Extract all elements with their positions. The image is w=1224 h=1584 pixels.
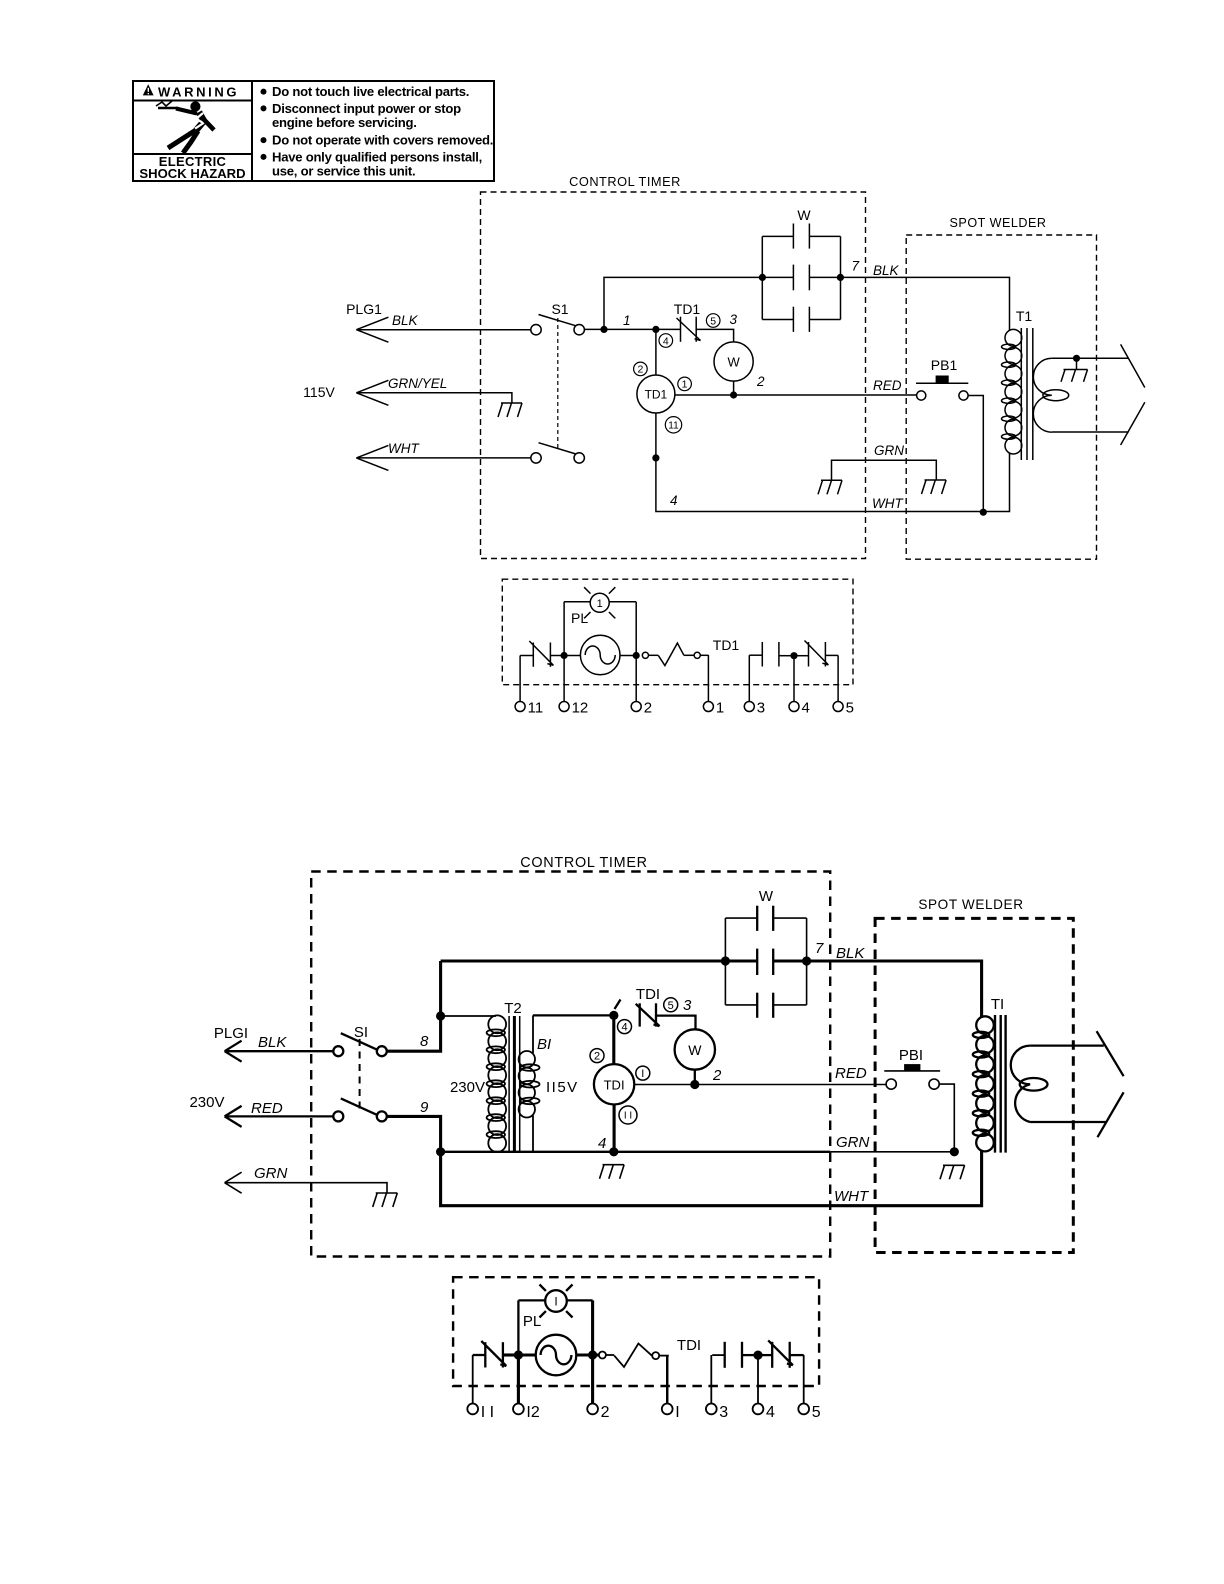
weld contactor W contacts (230V) — [756, 906, 758, 931]
contact NC 4-5 (230V) — [771, 1342, 773, 1368]
terminal stems — [519, 656, 521, 702]
ground (T1 secondary) — [1064, 369, 1088, 371]
electrode bottom — [1121, 402, 1145, 445]
svg-text:5: 5 — [812, 1404, 821, 1421]
junction (riser/S1 wire) — [600, 326, 607, 333]
switch S1 pole B — [531, 453, 541, 463]
svg-text:2: 2 — [637, 364, 643, 376]
pilot light loop — [564, 601, 590, 603]
svg-text:BI: BI — [537, 1036, 551, 1053]
svg-text:4: 4 — [802, 700, 810, 717]
svg-text:I I: I I — [481, 1404, 494, 1421]
transformer T1 secondary (230V) — [1011, 1046, 1030, 1122]
pin 4 bubble — [659, 334, 673, 348]
svg-text:SPOT WELDER: SPOT WELDER — [950, 216, 1047, 230]
wire GRN bus (230V) — [441, 1151, 831, 1153]
svg-text:11: 11 — [528, 700, 544, 717]
wire GRN bond — [832, 460, 937, 480]
svg-text:BLK: BLK — [873, 263, 900, 278]
wire node 4 vertical — [656, 453, 1010, 512]
pilot light PL — [590, 593, 609, 612]
terminal stems (230V) — [472, 1355, 474, 1403]
svg-text:PLGI: PLGI — [214, 1025, 248, 1042]
wire secondary top (230V) — [1030, 1044, 1104, 1046]
timer motor W (230V) — [675, 1029, 715, 1069]
svg-text:5: 5 — [846, 700, 854, 717]
svg-text:engine before servicing.: engine before servicing. — [272, 115, 417, 130]
svg-text:S1: S1 — [551, 301, 568, 317]
svg-text:2: 2 — [756, 374, 765, 389]
transformer T2 primary lead top — [441, 1015, 496, 1017]
wire TD1 branch bottom (230V) — [613, 1105, 616, 1152]
contact NO 3-4 (230V) — [724, 1342, 726, 1368]
svg-text:use, or service this unit.: use, or service this unit. — [272, 163, 415, 178]
junction TD1 node 4 top — [609, 1011, 618, 1020]
ground (230V input) — [376, 1192, 398, 1194]
svg-text:CONTROL TIMER: CONTROL TIMER — [520, 855, 647, 871]
svg-text:4: 4 — [598, 1135, 606, 1152]
svg-text:5: 5 — [710, 315, 716, 327]
svg-text:W: W — [797, 207, 811, 223]
svg-text:PBI: PBI — [899, 1047, 923, 1064]
pin 11 bubble — [665, 417, 681, 433]
contact NC 11-12 (230V) — [484, 1342, 486, 1367]
svg-text:I: I — [554, 1294, 557, 1308]
switch S1 pole B (230V) — [333, 1111, 343, 1121]
svg-text:Do not operate with covers rem: Do not operate with covers removed. — [272, 133, 493, 148]
svg-text:2: 2 — [594, 1051, 600, 1063]
wire secondary bottom — [1052, 431, 1129, 433]
electric shock hazard pictogram — [158, 107, 178, 110]
timed contact zigzag (230V) — [614, 1344, 652, 1368]
svg-text:TD1: TD1 — [713, 637, 740, 653]
svg-text:W: W — [759, 888, 774, 905]
wire T2 secondary top — [533, 1014, 614, 1016]
ground (TD1 node 4) — [603, 1164, 625, 1166]
wire motor to 12 — [564, 655, 580, 657]
junction 12 (230V) — [514, 1350, 523, 1359]
wire GRN to ground (230V) — [225, 1183, 387, 1193]
timer motor sync (230V) — [536, 1335, 577, 1376]
junction W left (230V) — [721, 956, 730, 965]
ground (GRN/YEL) — [501, 402, 522, 404]
svg-text:Have only qualified persons in: Have only qualified persons install, — [272, 149, 482, 164]
ground (spot welder) — [925, 479, 947, 481]
pin 11 bubble (230V) — [619, 1106, 637, 1124]
svg-text:I: I — [641, 1068, 644, 1080]
svg-text:WHT: WHT — [388, 441, 420, 456]
wire motor to 2 — [620, 655, 636, 657]
wire WHT bus (230V) — [441, 1150, 982, 1206]
ground (PB1 230V) — [943, 1164, 965, 1166]
svg-text:12: 12 — [572, 700, 589, 717]
svg-text:Disconnect input power or stop: Disconnect input power or stop — [272, 101, 461, 116]
contact bubble left — [642, 652, 648, 658]
pin 1 bubble — [678, 377, 692, 391]
wire TD1 coil branch top — [655, 329, 657, 375]
wire RED to PLG1 (230V) — [225, 1115, 334, 1117]
wire node 3 — [696, 329, 733, 342]
svg-text:SI: SI — [354, 1024, 368, 1041]
junction 2 — [633, 652, 640, 659]
contact bubble right — [694, 652, 700, 658]
junction WHT/S1 — [652, 454, 659, 461]
junction node 2 (230V) — [690, 1080, 699, 1089]
svg-text:4: 4 — [766, 1404, 775, 1421]
pin 5 bubble — [706, 314, 720, 328]
svg-text:230V: 230V — [450, 1079, 485, 1096]
svg-text:RED: RED — [251, 1100, 283, 1117]
svg-text:4: 4 — [621, 1022, 627, 1034]
wire GRN/YEL to PLG1 — [356, 393, 512, 403]
weld contactor W contact mid — [792, 265, 794, 291]
transformer T1 core — [1020, 328, 1022, 460]
pilot light PL (230V) — [545, 1290, 567, 1312]
svg-text:PL: PL — [523, 1313, 541, 1330]
svg-text:7: 7 — [815, 940, 824, 957]
svg-text:I2: I2 — [526, 1404, 539, 1421]
svg-text:I: I — [675, 1404, 679, 1421]
junction T2 bottom — [436, 1147, 445, 1156]
svg-text:GRN: GRN — [254, 1165, 288, 1182]
wire secondary bottom (230V) — [1030, 1121, 1106, 1123]
warning title — [143, 84, 154, 95]
wire BLK bus — [840, 277, 1009, 331]
svg-text:GRN: GRN — [874, 443, 904, 458]
wire node 8 — [387, 1016, 441, 1051]
junction 2 (230V) — [588, 1350, 597, 1359]
wire BLK to PLG1 (230V) — [225, 1050, 334, 1052]
wire to secondary ground — [1076, 358, 1078, 369]
wire TD1 branch top (230V) — [612, 1015, 615, 1064]
svg-text:RED: RED — [835, 1065, 867, 1082]
timer internal enclosure (230V) — [453, 1277, 819, 1386]
svg-text:WHT: WHT — [834, 1188, 870, 1205]
wire W motor to node 2 (230V) — [694, 1070, 696, 1085]
svg-text:TD1: TD1 — [645, 388, 668, 402]
svg-text:8: 8 — [420, 1033, 429, 1050]
svg-text:TD1: TD1 — [674, 301, 701, 317]
spot welder enclosure (230V) — [875, 918, 1073, 1252]
svg-text:WARNING: WARNING — [158, 84, 239, 99]
svg-text:2: 2 — [644, 700, 652, 717]
wire W motor to node 2 — [733, 381, 735, 395]
junction PB1/WHT — [980, 509, 987, 516]
pin 2 bubble (230V) — [590, 1049, 604, 1063]
terminals 11 12 2 1 3 4 5 (230V) — [467, 1404, 478, 1415]
spot welder enclosure (115V) — [906, 235, 1096, 559]
svg-text:CONTROL TIMER: CONTROL TIMER — [569, 174, 681, 189]
svg-text:4: 4 — [670, 493, 678, 508]
svg-text:1: 1 — [682, 379, 688, 391]
timed contact zigzag — [658, 643, 684, 665]
svg-text:SPOT WELDER: SPOT WELDER — [918, 897, 1023, 912]
svg-text:11: 11 — [668, 420, 679, 431]
electrode top — [1121, 344, 1145, 387]
relay coil TD1 — [637, 375, 675, 413]
weld contactor W frame (230V) — [725, 917, 757, 919]
switch S1 linkage — [557, 318, 559, 450]
svg-text:BLK: BLK — [836, 945, 865, 962]
svg-text:3: 3 — [719, 1404, 728, 1421]
svg-text:5: 5 — [668, 1000, 674, 1012]
junction 12 — [561, 652, 568, 659]
warning bullet text — [261, 89, 267, 95]
electrode top (230V) — [1097, 1031, 1124, 1076]
contact bubble left (230V) — [599, 1352, 606, 1359]
contact TD1 NC (230V) — [639, 1003, 641, 1026]
wire PB1 to GRN (230V) — [939, 1084, 954, 1152]
wire node 1 — [584, 328, 680, 330]
pilot light loop (230V) — [518, 1299, 545, 1301]
svg-text:GRN: GRN — [836, 1134, 870, 1151]
switch S1 pole A — [531, 325, 541, 335]
transformer T1 primary (230V) — [976, 1016, 994, 1034]
pin 2 bubble — [634, 362, 648, 376]
warning label frame — [133, 81, 494, 181]
svg-text:I I: I I — [624, 1111, 632, 1122]
junction node 2 — [730, 391, 737, 398]
svg-text:T2: T2 — [504, 1000, 522, 1017]
junction W right — [837, 274, 844, 281]
junction node 1 / TD1 branch — [652, 326, 659, 333]
wire RED node 2 — [675, 394, 917, 396]
electrode bottom (230V) — [1098, 1092, 1124, 1137]
wire RED node 2 (230V) — [634, 1084, 886, 1086]
contact bubble right (230V) — [652, 1352, 659, 1359]
svg-text:4: 4 — [663, 335, 669, 347]
switch S1 linkage (230V) — [359, 1039, 361, 1112]
wire WHT to PLG1 — [356, 457, 530, 459]
svg-text:RED: RED — [873, 378, 902, 393]
junction secondary ground — [1073, 355, 1080, 362]
svg-text:BLK: BLK — [392, 313, 419, 328]
wire GRN spot welder (230V) — [830, 1151, 954, 1153]
svg-text:GRN/YEL: GRN/YEL — [388, 376, 447, 391]
wire BLK to PLG1 — [356, 329, 530, 331]
timer motor W — [714, 342, 753, 381]
wire secondary top — [1052, 357, 1129, 359]
junction 4 (230V) — [753, 1351, 762, 1360]
pushbutton PB1 — [916, 382, 968, 384]
control timer enclosure (115V) — [481, 192, 866, 559]
svg-text:3: 3 — [683, 997, 692, 1014]
transformer T2 core — [508, 1016, 510, 1153]
svg-text:3: 3 — [757, 700, 765, 717]
svg-text:W: W — [688, 1042, 702, 1058]
ground (control timer) — [821, 479, 842, 481]
transformer T1 core (230V) — [994, 1015, 996, 1153]
pin 1 bubble (230V) — [636, 1066, 650, 1080]
svg-text:1: 1 — [597, 598, 603, 610]
timer motor (sync) — [580, 635, 620, 675]
wire BLK bus (230V) — [441, 959, 758, 962]
timer internal enclosure (115V) — [502, 579, 853, 685]
svg-text:2: 2 — [712, 1067, 722, 1084]
svg-text:PLG1: PLG1 — [346, 301, 382, 317]
contact NO 3-4 — [761, 642, 763, 667]
junction W right (230V) — [802, 956, 811, 965]
junction 4 — [790, 652, 797, 659]
svg-text:230V: 230V — [189, 1094, 224, 1111]
svg-text:TDI: TDI — [604, 1077, 625, 1092]
contact NC 4-5 — [808, 642, 810, 667]
svg-text:Do not touch live electrical p: Do not touch live electrical parts. — [272, 84, 469, 99]
pushbutton PB1 (230V) — [884, 1070, 940, 1072]
svg-text:7: 7 — [852, 259, 860, 274]
junction PB1/GRN — [950, 1147, 959, 1156]
svg-text:TI: TI — [991, 996, 1004, 1013]
wire PB1 to WHT — [968, 396, 983, 513]
weld contactor W contact top — [792, 224, 794, 249]
wire riser to W line — [604, 277, 762, 329]
switch S1 pole A (230V) — [333, 1046, 343, 1056]
svg-text:TDI: TDI — [677, 1337, 701, 1354]
transformer T2 primary — [488, 1015, 506, 1033]
junction TD1 ground — [609, 1147, 618, 1156]
contact TD1 (NC) — [680, 317, 682, 342]
wire node 3 (230V) — [656, 1016, 696, 1030]
svg-text:2: 2 — [601, 1404, 610, 1421]
svg-text:II5V: II5V — [546, 1079, 579, 1096]
weld contactor W frame — [762, 235, 793, 237]
svg-text:BLK: BLK — [258, 1034, 287, 1051]
pin 5 bubble (230V) — [664, 998, 678, 1012]
wire node 9 — [387, 1116, 441, 1151]
svg-text:PL: PL — [571, 610, 588, 626]
svg-text:SHOCK HAZARD: SHOCK HAZARD — [139, 166, 245, 181]
svg-text:PB1: PB1 — [931, 357, 958, 373]
weld contactor W contact bottom — [792, 307, 794, 332]
junction W left — [759, 274, 766, 281]
svg-text:1: 1 — [716, 700, 724, 717]
transformer T1 primary — [1005, 329, 1022, 346]
wire motor leads (230V) — [518, 1353, 535, 1356]
transformer T1 secondary — [1033, 358, 1052, 432]
blade tick — [615, 1000, 621, 1010]
svg-text:9: 9 — [420, 1099, 429, 1116]
control timer enclosure (230V) — [311, 872, 830, 1257]
wire TD1 coil branch bottom — [655, 413, 657, 458]
svg-text:115V: 115V — [303, 384, 335, 400]
svg-text:T1: T1 — [1016, 308, 1033, 324]
svg-text:WHT: WHT — [872, 496, 904, 511]
svg-text:1: 1 — [623, 313, 631, 328]
svg-text:3: 3 — [730, 312, 738, 327]
relay coil TD1 (230V) — [594, 1064, 634, 1104]
transformer T2 secondary — [532, 1015, 534, 1053]
contact NC 11-12 — [532, 643, 534, 667]
terminals 11 12 2 1 3 4 5 — [515, 702, 525, 712]
svg-text:TDI: TDI — [636, 986, 660, 1003]
svg-text:W: W — [727, 355, 740, 370]
wire riser BLK (230V) — [439, 961, 442, 1016]
pin 4 bubble (230V) — [618, 1020, 632, 1034]
junction T2 top — [436, 1011, 445, 1020]
